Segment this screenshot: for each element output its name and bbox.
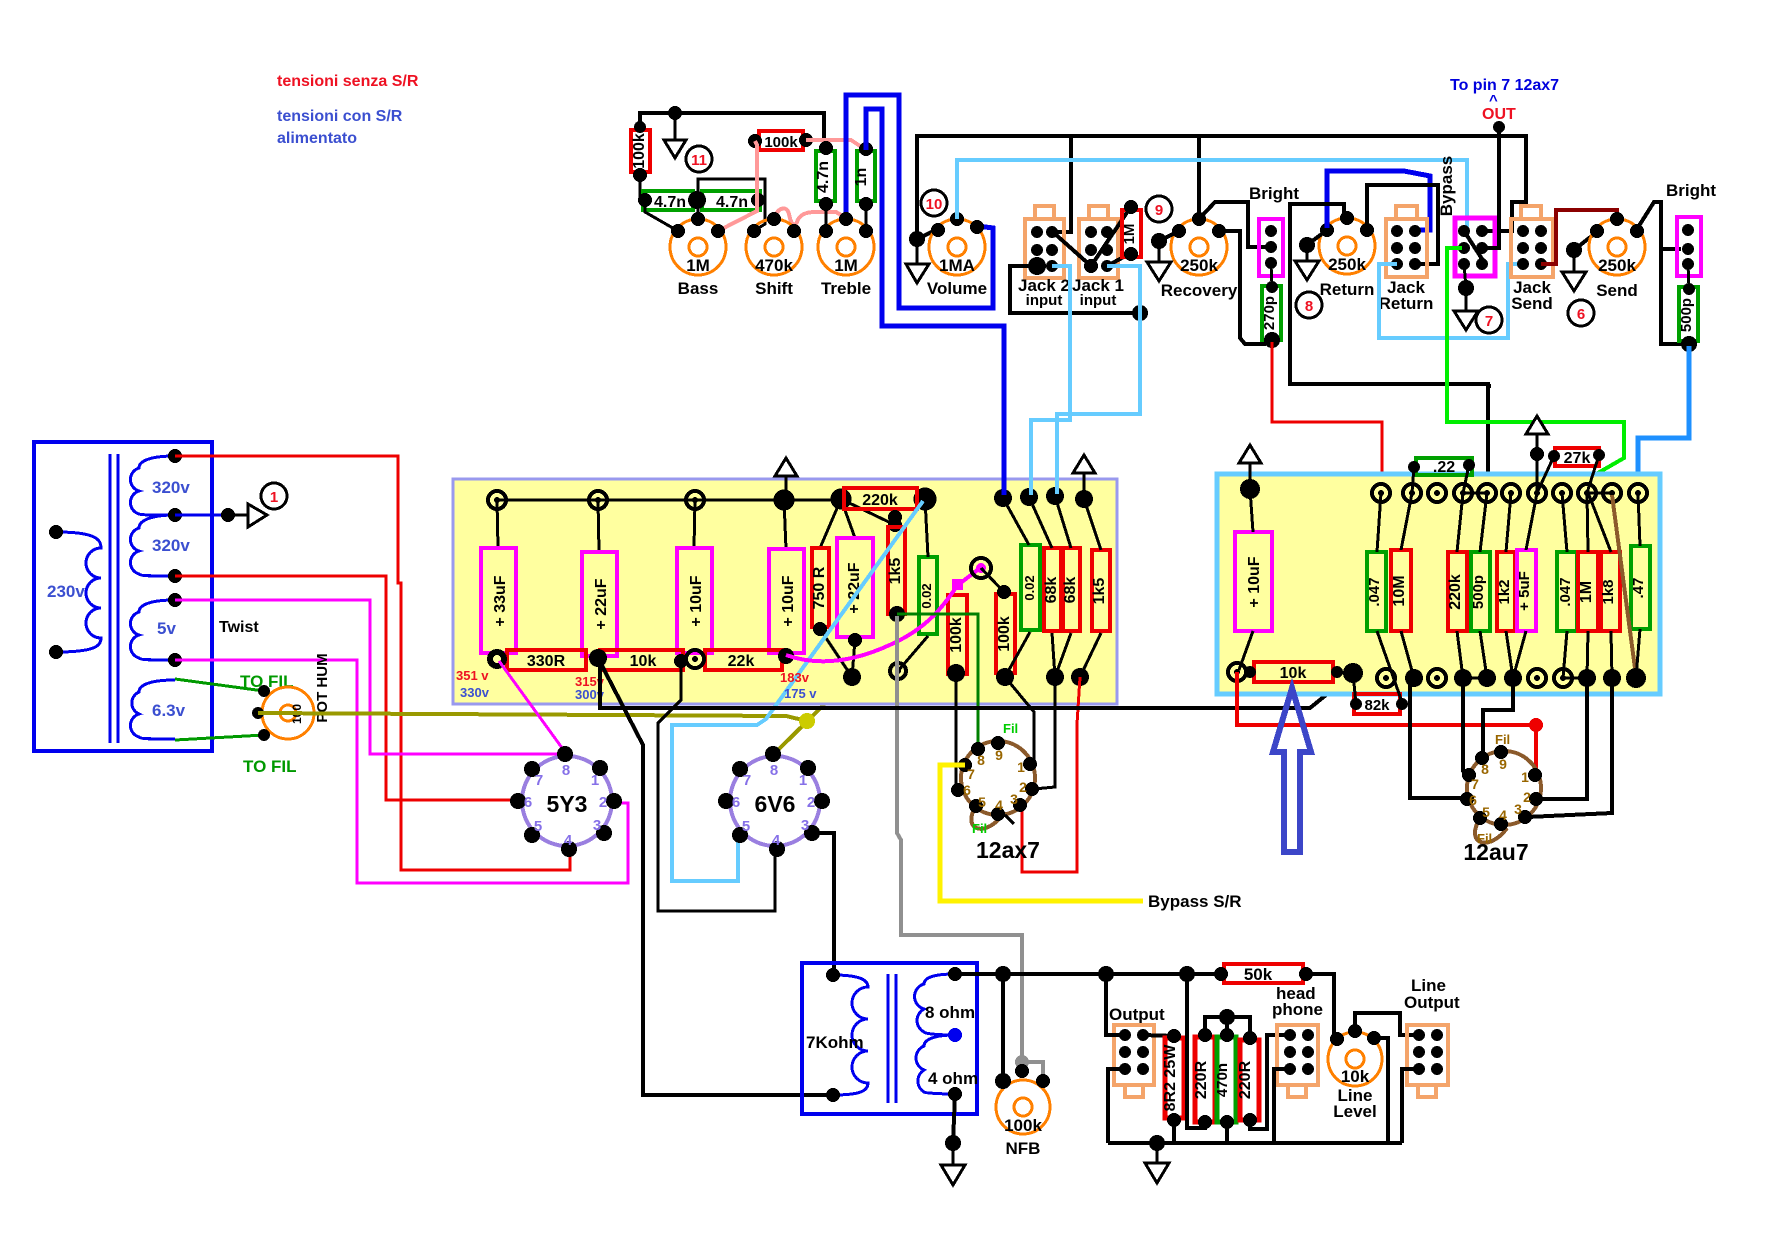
svg-text:phone: phone: [1272, 1000, 1323, 1019]
svg-text:4: 4: [995, 797, 1003, 813]
wire .047a bottom to 82k right: [1377, 631, 1402, 702]
wire jack2 tip to jack1 sleeve: [1054, 233, 1091, 266]
svg-text:330R: 330R: [527, 653, 566, 670]
svg-text:0.02: 0.02: [919, 583, 934, 608]
wire 5uF bottom to D6: [1513, 631, 1526, 678]
svg-text:Treble: Treble: [821, 279, 871, 298]
wire 50k right to line level pot: [1306, 974, 1339, 1038]
svg-text:250k: 250k: [1328, 255, 1366, 274]
node dot on ground line: [1530, 447, 1544, 461]
tube 12au7: [1460, 732, 1543, 865]
node 100kv top: [634, 121, 646, 133]
wire B9 to 12ax7 pin2: [1034, 677, 1055, 789]
wire olive POT HUM wiper to filament junction: [258, 713, 807, 721]
resistor 220R a: [1195, 1037, 1215, 1122]
svg-text:input: input: [1080, 292, 1117, 309]
wire yellow 12ax7 pin7 bypass: [940, 765, 1143, 901]
svg-text:3: 3: [593, 817, 601, 834]
wire OT secondary bottom to ground: [953, 1094, 955, 1143]
cap holder Bright right: [1677, 217, 1701, 276]
wire 500p top to C5: [1480, 493, 1487, 552]
potentiometer Volume 1MA: [929, 219, 985, 275]
jack Jack Send: [1511, 206, 1553, 277]
board 2: [1217, 474, 1660, 694]
node eyelet B5: [843, 668, 861, 686]
svg-text:2: 2: [1523, 789, 1531, 805]
node eyelet B1: [487, 649, 507, 669]
svg-text:3: 3: [801, 817, 809, 834]
svg-text:250k: 250k: [1180, 256, 1218, 275]
svg-text:68k: 68k: [1043, 577, 1060, 604]
node 4.7nv top: [819, 141, 833, 155]
svg-text:.22: .22: [1433, 459, 1455, 476]
svg-text:10: 10: [926, 196, 943, 213]
node eyelet A8: [1020, 488, 1038, 506]
wire recovery left to ground: [1159, 231, 1179, 241]
svg-text:1k8: 1k8: [1600, 579, 1617, 604]
capacitor +5uF: [1517, 550, 1536, 631]
node eyelet C3: [1428, 484, 1446, 502]
capacitor 0.02 b: [1021, 545, 1040, 630]
node eyelet A2: [589, 491, 607, 509]
wire D10 to 12au7 pin3: [1528, 678, 1612, 817]
node 1n top: [859, 142, 873, 156]
capacitor 270p: [1262, 286, 1281, 340]
wire 320v top red to 5Y3 pin4: [175, 456, 570, 870]
node 220k junction top: [888, 510, 902, 524]
svg-text:OUT: OUT: [1482, 106, 1516, 123]
svg-text:.47: .47: [1630, 578, 1647, 599]
potentiometer Return 250k: [1319, 218, 1375, 274]
svg-text:TO FIL: TO FIL: [243, 757, 297, 776]
node eyelet D9: [1578, 669, 1596, 687]
ground above C7: [1536, 434, 1539, 493]
svg-text:220R: 220R: [1237, 1060, 1254, 1099]
svg-text:4.7n: 4.7n: [815, 161, 832, 193]
wire green switch middle-left to board2: [1447, 248, 1624, 492]
svg-text:3: 3: [1010, 791, 1018, 807]
node fan dot: [888, 518, 902, 532]
wire bar D4-D5: [1463, 677, 1487, 680]
wire send left to ground: [1574, 231, 1598, 250]
resistor 8R2 25W: [1165, 1038, 1184, 1118]
svg-text:Bypass: Bypass: [1437, 156, 1456, 216]
board 1: [453, 479, 1117, 704]
wire 220Rb bottom to headphone tip: [1250, 1035, 1290, 1129]
svg-text:6V6: 6V6: [755, 791, 796, 817]
svg-text:7: 7: [535, 772, 543, 789]
node eyelet A1: [488, 491, 506, 509]
svg-text:+ 5uF: + 5uF: [1516, 571, 1533, 611]
node eyelet C10: [1603, 484, 1621, 502]
wire CT to ground blue: [175, 514, 228, 517]
node olive junction: [799, 713, 815, 729]
node 100ka bottom dot is B7, wire down to 12ax7 pin6: [956, 673, 958, 790]
svg-text:12ax7: 12ax7: [976, 837, 1040, 863]
wire black OUT to switch middle-right: [1486, 127, 1499, 248]
svg-text:1M: 1M: [686, 256, 710, 275]
capacitor 470n: [1217, 1037, 1236, 1122]
svg-text:7: 7: [1471, 776, 1479, 792]
node eyelet C7: [1528, 484, 1546, 502]
resistor 750R: [812, 548, 829, 627]
svg-text:5: 5: [534, 818, 542, 835]
wire .22 right to C4: [1463, 465, 1469, 493]
node bus2 volume corner: [909, 231, 925, 247]
svg-text:Recovery: Recovery: [1161, 281, 1238, 300]
wire A9 to 68kb top: [1055, 496, 1071, 548]
svg-text:330v: 330v: [460, 685, 490, 700]
svg-text:270p: 270p: [1261, 296, 1278, 330]
wire line output sleeve to ground bus: [1402, 1069, 1419, 1143]
svg-text:750 R: 750 R: [811, 566, 828, 609]
node 5v bottom tap: [168, 653, 182, 667]
ground symbol above board1 left: [785, 475, 788, 500]
wire 10k junction to 6V6 long drop: [598, 658, 833, 1095]
svg-text:10k: 10k: [1341, 1067, 1370, 1086]
wire 5v bottom magenta to 5Y3 pin2: [175, 660, 628, 883]
svg-text:6: 6: [963, 782, 971, 798]
wire A3 down: [694, 500, 695, 548]
svg-text:2: 2: [599, 794, 607, 811]
node CT tap: [168, 508, 182, 522]
wire send right to bright right middle and 500p bottom: [1637, 202, 1681, 249]
wire .047b bottom to D8: [1563, 631, 1567, 678]
svg-text:50k: 50k: [1244, 965, 1273, 984]
svg-text:100k: 100k: [631, 133, 648, 169]
resistor 220R b: [1240, 1040, 1259, 1120]
potentiometer Treble 1M: [818, 219, 874, 275]
jack Jack 2 input: [1025, 206, 1064, 278]
node 4.7n middle junction: [688, 191, 706, 209]
svg-text:Volume: Volume: [927, 279, 987, 298]
svg-text:470k: 470k: [755, 256, 793, 275]
wire D6 to 12au7 pin8: [1483, 678, 1513, 757]
transformer T1 box: [34, 442, 212, 751]
svg-text:5v: 5v: [157, 619, 176, 638]
transformer OT core: [887, 974, 890, 1103]
svg-text:9: 9: [995, 747, 1003, 763]
wire .22 left to C2: [1412, 467, 1414, 493]
ground output bus: [1156, 1143, 1159, 1163]
wire 22uFc bottom to B5: [852, 640, 855, 677]
resistor 68k a: [1044, 548, 1061, 631]
transformer OT secondary: [915, 974, 955, 1035]
transformer OT box: [802, 963, 977, 1114]
wire cyan volume wiper to bypass switch: [957, 160, 1467, 229]
wire 8R2 bottom to ground bus: [1172, 1120, 1176, 1143]
wire 5v top magenta to 5Y3 pin8: [175, 600, 563, 754]
svg-text:0.02: 0.02: [1022, 575, 1037, 600]
node bus dot b: [1098, 966, 1114, 982]
node eyelet D7: [1528, 669, 1546, 687]
jack Line Output: [1407, 1025, 1448, 1097]
svg-text:Fil: Fil: [972, 821, 987, 836]
svg-text:Send: Send: [1511, 294, 1553, 313]
wire cyan diagonal A6 to 6V6 pin5: [672, 501, 923, 881]
wire 220k top to C4: [1457, 493, 1463, 552]
node eyelet A3: [686, 491, 704, 509]
resistor 100k a: [948, 595, 967, 674]
ground CT right-pointing: [228, 514, 248, 517]
wire volume left diagonal: [917, 229, 938, 239]
ground return: [1306, 245, 1309, 261]
node 100kv bottom: [633, 168, 647, 182]
capacitor 4.7n horizontal b: [702, 191, 760, 210]
wire gray 1k5a bottom to NFB: [897, 616, 1043, 1079]
svg-text:230v: 230v: [47, 582, 85, 601]
capacitor 1n vertical: [857, 151, 875, 201]
svg-text:7Kohm: 7Kohm: [806, 1033, 864, 1052]
wire pink 100kh left to Bass right: [718, 141, 757, 231]
svg-text:9: 9: [1499, 756, 1507, 772]
switch lever: [1464, 231, 1484, 262]
svg-text:175 v: 175 v: [784, 686, 817, 701]
svg-text:tensioni senza S/R: tensioni senza S/R: [277, 73, 419, 90]
svg-text:27k: 27k: [1564, 450, 1591, 467]
wire blue Treble wiper to Volume right: [846, 95, 993, 308]
wire black bus2 volume-jacks-recovery-switch: [917, 136, 1526, 239]
svg-text:Bright: Bright: [1249, 184, 1299, 203]
svg-text:.047: .047: [1557, 577, 1574, 606]
wire 1k5b bottom to B10: [1080, 633, 1101, 677]
svg-text:Bypass S/R: Bypass S/R: [1148, 892, 1242, 911]
node eyelet A10: [1075, 490, 1093, 508]
svg-text:8: 8: [562, 762, 570, 779]
node eyelet C4: [1454, 484, 1472, 502]
svg-text:500p: 500p: [1470, 575, 1487, 609]
svg-text:6: 6: [1577, 306, 1585, 323]
node circled 11: [686, 146, 712, 172]
node circled 6: [1568, 300, 1594, 326]
wire 1k8 top to C9: [1589, 495, 1611, 552]
wire .47 bottom to D11: [1636, 629, 1640, 678]
svg-text:5: 5: [742, 818, 750, 835]
node eyelet B3: [686, 650, 704, 668]
svg-text:1: 1: [591, 772, 599, 789]
node eyelet C1: [1372, 484, 1390, 502]
node eyelet B6: [890, 663, 906, 679]
node 1n bottom: [859, 197, 873, 211]
wire green 1k5a bottom to 12ax7 pin8: [897, 614, 978, 746]
node circled 1: [261, 483, 287, 509]
capacitor 500p: [1679, 287, 1698, 341]
node eyelet D10: [1603, 669, 1621, 687]
transformer T1 primary winding 230v: [56, 532, 101, 652]
svg-text:1k5: 1k5: [887, 558, 904, 585]
wire return wiper long loop to board2 500p: [1290, 204, 1488, 490]
wire olive 6V6 pin8 to board eyelet diagonal: [774, 677, 852, 754]
node 100kh right: [799, 133, 813, 147]
svg-text:.047: .047: [1366, 577, 1383, 606]
svg-text:Send: Send: [1596, 281, 1638, 300]
wire A5 fan to 22uF top: [841, 499, 855, 538]
wire brown C10 to D10: [1612, 495, 1636, 676]
transformer OT primary: [833, 975, 868, 1095]
svg-text:10k: 10k: [1280, 665, 1307, 682]
wire 6V6 pin3 to OT primary top: [812, 833, 834, 978]
node eyelet D8: [1554, 669, 1572, 687]
node eyelet A4: [775, 491, 793, 509]
wire 750R bottom to B5: [820, 629, 852, 677]
resistor 1k5 b: [1092, 550, 1110, 631]
svg-text:alimentato: alimentato: [277, 130, 357, 147]
wire line level wiper to line output tip: [1355, 1013, 1417, 1035]
resistor 68k b: [1063, 548, 1080, 631]
node eyelet B10: [1071, 668, 1089, 686]
wire pink 100kh right to 1n top: [806, 140, 866, 150]
capacitor +10uF b: [769, 549, 804, 653]
wire A1 down: [497, 500, 498, 548]
jack Output: [1114, 1025, 1154, 1097]
svg-text:4: 4: [564, 832, 573, 849]
svg-text:Fil: Fil: [1003, 721, 1018, 736]
wire 5uF top to C7: [1526, 493, 1537, 550]
wire .47 top to C11: [1638, 493, 1640, 546]
svg-text:8R2 25W: 8R2 25W: [1162, 1044, 1179, 1112]
wire A5 fan to 1k5 top: [841, 499, 895, 525]
tube 6V6: [718, 746, 830, 857]
svg-text:6: 6: [732, 794, 740, 811]
node 4.7nv bottom: [819, 197, 833, 211]
svg-text:6: 6: [1469, 792, 1477, 808]
svg-text:1n: 1n: [853, 168, 870, 187]
svg-text:To pin 7 12ax7: To pin 7 12ax7: [1450, 77, 1559, 94]
wire bright left bottom to 270p: [1271, 263, 1272, 287]
wire .047a top to C1: [1377, 493, 1381, 552]
wire 10k right to junction: [1337, 672, 1353, 673]
svg-text:1k5: 1k5: [1091, 578, 1108, 605]
wire 82k left up to junction: [1353, 673, 1356, 704]
node eyelet C0: [1240, 479, 1260, 499]
wire bus c down to 220Ra bottom: [1187, 974, 1205, 1128]
node eyelet D5: [1478, 669, 1496, 687]
wire node to 100kb top: [981, 568, 1004, 592]
node ground bus dot: [1149, 1135, 1165, 1151]
wire 4.7nv bottom to Treble left: [825, 204, 828, 231]
svg-text:1k2: 1k2: [1496, 579, 1513, 604]
jack Jack 1 input: [1079, 206, 1118, 278]
wire OT secondary top bus to 50k: [955, 972, 1219, 976]
wire jack1 sleeve to 1M top: [1091, 208, 1130, 266]
jack head phone: [1277, 1025, 1318, 1097]
node top junction: [1219, 1009, 1235, 1025]
svg-text:11: 11: [691, 152, 707, 169]
resistor 330R: [507, 650, 586, 670]
wire black bus3 switch top long down to board2: [1487, 384, 1491, 388]
node eyelet D3: [1428, 669, 1446, 687]
wire red D0 to 12au7 pin1: [1237, 672, 1536, 775]
svg-text:Bass: Bass: [678, 279, 719, 298]
svg-text:250k: 250k: [1598, 256, 1636, 275]
node eyelet C5: [1478, 484, 1496, 502]
node eyelet A6: [915, 489, 935, 509]
wire A5 fan to 750R top: [820, 499, 841, 548]
svg-text:Return: Return: [1379, 294, 1434, 313]
wire 1n bottom to Treble right: [865, 204, 868, 231]
svg-text:input: input: [1026, 292, 1063, 309]
node eyelet B4: [778, 648, 794, 664]
node eyelet B9: [1046, 668, 1064, 686]
wire maroon jack send tip to send top: [1541, 210, 1617, 264]
capacitor 0.02 a: [919, 557, 937, 634]
svg-text:10M: 10M: [1391, 575, 1408, 606]
wire recovery top to bright left middle: [1199, 202, 1266, 247]
svg-text:8: 8: [1481, 761, 1489, 777]
arrow big blue: [1273, 688, 1311, 852]
node eyelet C6: [1502, 484, 1520, 502]
wire D4 to 12au7 pin7: [1463, 678, 1469, 775]
svg-text:NFB: NFB: [1006, 1139, 1041, 1158]
wire 320v bottom red to 5Y3 pin6: [175, 576, 518, 800]
wire 6.3v green to POT HUM bottom: [175, 735, 264, 740]
svg-text:320v: 320v: [152, 478, 190, 497]
svg-text:5: 5: [978, 794, 986, 810]
svg-text:7: 7: [1485, 313, 1493, 330]
wire 0.02a bottom to B6: [898, 636, 928, 671]
resistor 100k b: [996, 594, 1015, 673]
node eyelet D0: [1228, 663, 1246, 681]
wire Bass wiper loop over 4.7nb to Shift left: [698, 179, 765, 231]
svg-text:12au7: 12au7: [1463, 839, 1528, 865]
node eyelet A7: [994, 489, 1012, 507]
wire 500p bottom to D5: [1480, 631, 1487, 678]
jack Jack Return: [1386, 206, 1427, 277]
svg-text:22k: 22k: [728, 653, 755, 670]
svg-text:320v: 320v: [152, 536, 190, 555]
resistor 10k board2: [1254, 662, 1333, 682]
node 320v top tap: [168, 449, 182, 463]
wire 68kb bottom to B9: [1055, 633, 1071, 677]
node gray hook dot: [1015, 1055, 1029, 1069]
wire black bus under board1: [600, 660, 1353, 708]
wire A8 to 68ka top: [1029, 497, 1052, 548]
svg-text:100k: 100k: [948, 617, 965, 653]
node circled 8: [1296, 292, 1322, 318]
node junction on cyan: [1132, 305, 1148, 321]
svg-text:8: 8: [1305, 298, 1313, 315]
svg-text:4: 4: [1499, 807, 1507, 823]
wire bar D8-D9: [1563, 677, 1587, 680]
capacitor .22: [1416, 458, 1472, 475]
svg-text:1MA: 1MA: [939, 256, 975, 275]
resistor 220k board2: [1448, 552, 1467, 631]
capacitor 4.7n horizontal a: [643, 191, 693, 210]
node eyelet C9: [1578, 484, 1596, 502]
svg-text:Fil: Fil: [1495, 732, 1510, 747]
svg-text:100k: 100k: [996, 616, 1013, 652]
wire cyan jack1 bottom-right to board A9: [1057, 266, 1140, 494]
svg-text:8: 8: [977, 752, 985, 768]
wire dodgerblue 500p bottom to board2: [1638, 346, 1689, 490]
wire 220Ra top to junction: [1205, 1017, 1250, 1038]
ground tone bus: [674, 113, 677, 140]
svg-text:1M: 1M: [1121, 224, 1138, 245]
potentiometer Line Level 10k: [1328, 1032, 1382, 1086]
node eyelet B8: [996, 668, 1014, 686]
wire bus b down to output jack tip: [1106, 974, 1125, 1035]
svg-text:3: 3: [1514, 801, 1522, 817]
potentiometer Bass 1M: [670, 219, 726, 275]
svg-text:1: 1: [270, 489, 278, 506]
svg-text:500p: 500p: [1678, 298, 1695, 332]
resistor 22k: [705, 650, 782, 670]
node eyelet D11: [1626, 668, 1646, 688]
capacitor +22uF c: [837, 538, 873, 637]
node tone bus junction: [668, 106, 682, 120]
node eyelet A9: [1046, 487, 1064, 505]
wire 10M top to C2: [1401, 493, 1412, 550]
